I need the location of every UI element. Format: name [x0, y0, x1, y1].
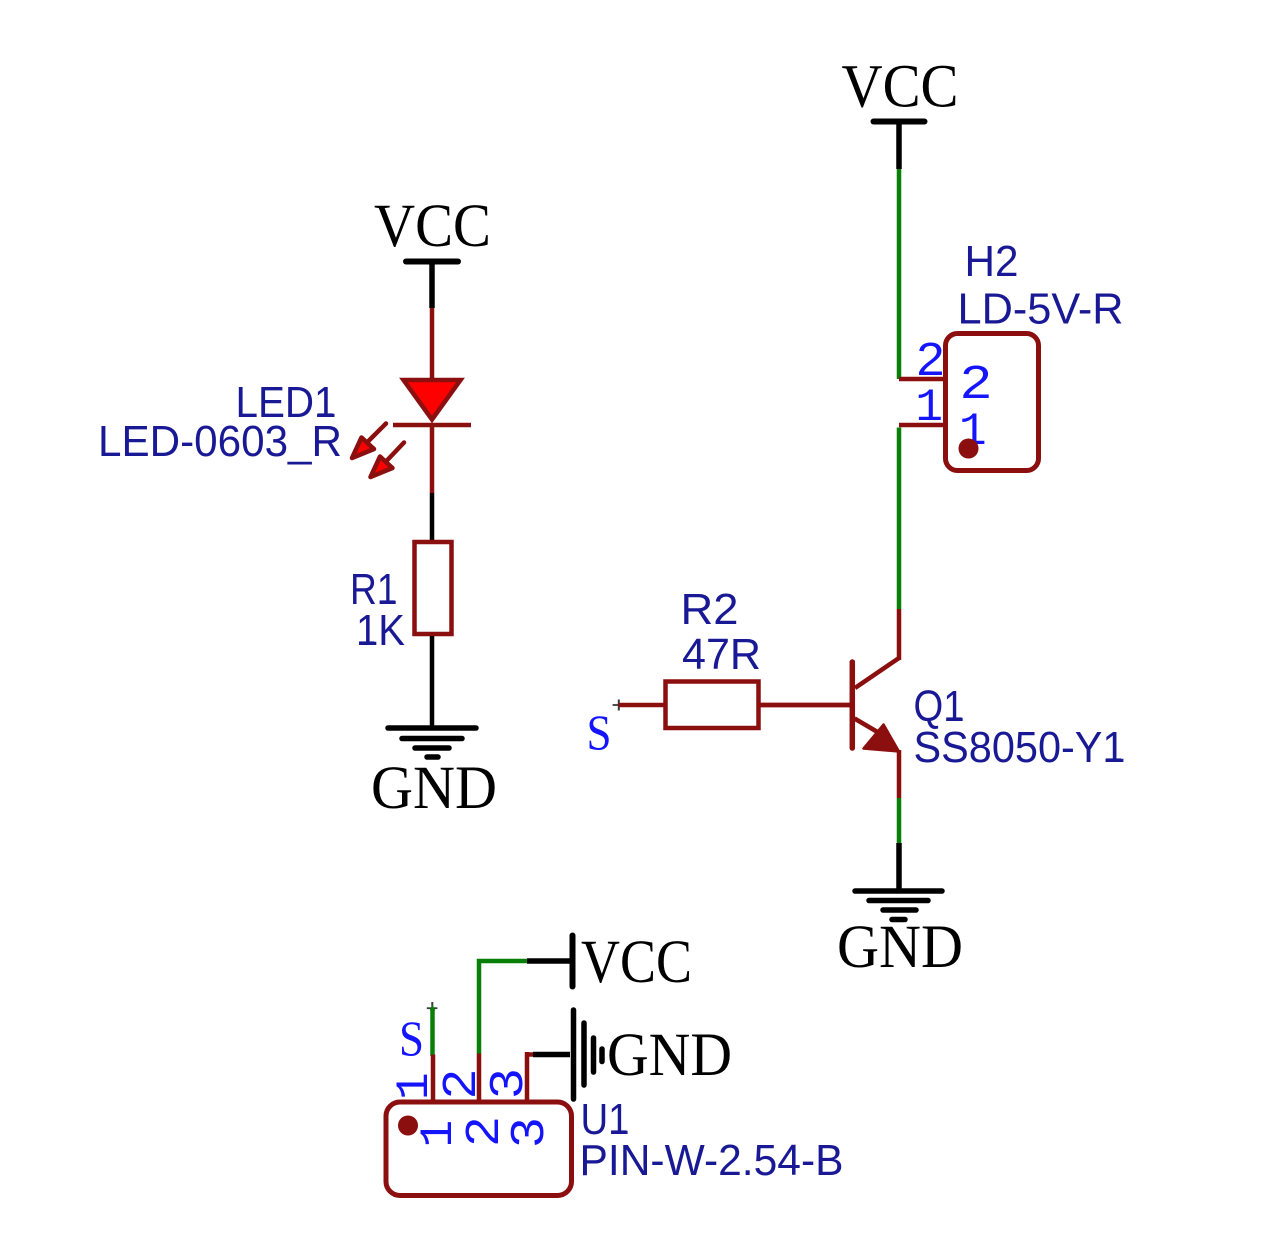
svg-text:2: 2 — [961, 356, 992, 408]
ground GND (bottom, rotated) — [574, 1010, 603, 1099]
svg-text:1: 1 — [915, 382, 943, 434]
transistor Q1 (SS8050-Y1) — [761, 609, 899, 798]
power flag VCC (left, net VCC) — [374, 193, 491, 308]
net stub S to R2 (pin end cross) — [613, 700, 625, 711]
svg-text:VCC: VCC — [374, 193, 491, 260]
resistor R1 body — [415, 542, 452, 634]
pin 1 marker dot in U1 — [398, 1116, 418, 1136]
wire R1 to GND — [430, 636, 435, 728]
connector U1 pin 2 stub — [477, 1054, 482, 1101]
connector H2 body (LD-5V-R) — [946, 334, 1039, 471]
LED LED1 cathode pin — [430, 425, 435, 493]
connector U1 body (PIN-W-2.54-B) — [386, 1102, 572, 1196]
wire Q1 emitter to GND (green) — [897, 798, 902, 843]
foot serif of digit 1 in U1 — [611, 1130, 626, 1134]
connector U1 pin 1 stub — [431, 1055, 436, 1101]
wire to VCC flag (black) — [527, 958, 571, 964]
power flag VCC (right top) — [842, 54, 959, 170]
wire U1 pin 3 to GND (black) — [533, 1052, 570, 1058]
LED LED1 anode pin (pin 2, wire from VCC) — [430, 308, 435, 378]
collector pin — [897, 609, 902, 660]
foot serif of digit 1 in LED1 — [318, 413, 333, 417]
emitter with arrow — [855, 719, 887, 738]
svg-text:GND: GND — [607, 1022, 732, 1089]
svg-text:3: 3 — [501, 1118, 553, 1147]
wire LED1 to R1 — [430, 493, 435, 541]
foot serif of digit 1 in SS8050-Y1 — [1106, 758, 1121, 762]
connector H2 pin 2 stub — [899, 377, 944, 382]
wire H2 pin 1 to Q1 collector (green) — [897, 428, 902, 610]
connector H2 pin 1 stub — [899, 423, 944, 428]
svg-text:S: S — [587, 704, 612, 760]
svg-text:2: 2 — [917, 333, 945, 385]
power flag VCC (bottom, rotated) — [573, 929, 693, 996]
svg-text:GND: GND — [371, 755, 497, 822]
LED LED1 symbol (LED-0603_R) — [352, 380, 471, 477]
resistor R2 body — [666, 682, 759, 729]
resistor R2 right pin / wire to Q1 base — [758, 703, 851, 708]
foot serif of digit 1 in R1 — [380, 600, 395, 604]
svg-text:H2: H2 — [965, 237, 1019, 286]
wire VCC to H2 pin 2 (green) — [897, 169, 902, 379]
wire U1 pin 2 to VCC (green) — [479, 961, 527, 1054]
LED light arrow 2 — [371, 443, 405, 478]
svg-text:3: 3 — [480, 1069, 532, 1098]
base bar — [850, 662, 856, 748]
svg-text:2: 2 — [433, 1070, 485, 1099]
svg-text:LED-0603_R: LED-0603_R — [98, 417, 342, 466]
net wire S above U1 pin 1 (green) — [430, 1005, 436, 1011]
svg-text:VCC: VCC — [581, 929, 692, 996]
resistor R2 left pin — [621, 703, 667, 708]
base pin — [761, 703, 851, 708]
svg-text:1K: 1K — [356, 606, 405, 655]
svg-text:GND: GND — [837, 914, 963, 981]
pin 1 marker dot in H2 — [959, 439, 979, 459]
LED light arrow 1 — [352, 424, 386, 459]
net S end cross (U1) — [427, 1002, 438, 1011]
connector U1 pin 3 stub — [525, 1052, 530, 1100]
ground GND (left) — [388, 728, 476, 757]
svg-text:VCC: VCC — [842, 54, 959, 121]
svg-text:PIN-W-2.54-B: PIN-W-2.54-B — [580, 1136, 844, 1185]
svg-text:47R: 47R — [682, 630, 761, 679]
ground GND (right) — [855, 843, 942, 920]
svg-text:S: S — [399, 1010, 424, 1066]
svg-text:LD-5V-R: LD-5V-R — [958, 285, 1124, 334]
foot serif of digit 1 in 1K — [359, 641, 374, 645]
svg-text:SS8050-Y1: SS8050-Y1 — [914, 723, 1126, 772]
svg-text:R2: R2 — [681, 585, 739, 634]
foot serif of digit 1 in Q1 — [946, 717, 961, 721]
